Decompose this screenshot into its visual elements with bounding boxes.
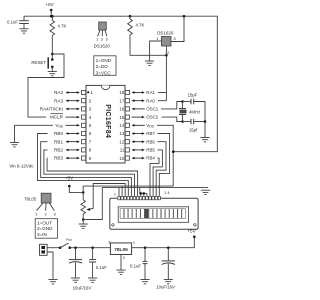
svg-text:4.7K: 4.7K xyxy=(58,24,67,29)
resistor R2 4.7K xyxy=(128,19,133,35)
wire to C3 xyxy=(183,121,191,123)
junction S1 right xyxy=(69,246,72,249)
wire +5V stub xyxy=(50,10,52,16)
wire RB4 to LCD xyxy=(150,158,159,196)
wire RB1 to LCD xyxy=(41,142,132,197)
LCD mounting holes xyxy=(112,224,114,226)
wire C3 to ground rail xyxy=(194,121,205,123)
wire C2 to ground rail xyxy=(194,102,205,138)
svg-text:OSC1: OSC1 xyxy=(146,107,159,112)
wire +5V arrow to pot node xyxy=(69,186,83,192)
junction reset contact bottom xyxy=(51,66,54,69)
svg-text:RA2: RA2 xyxy=(54,90,63,95)
svg-text:10uF/16V: 10uF/16V xyxy=(156,284,175,289)
wire U4 pin2 to ground xyxy=(120,255,122,271)
svg-text:0.1uF: 0.1uF xyxy=(130,264,141,269)
junction Cout1 xyxy=(144,246,147,249)
wire crystal stem top xyxy=(182,102,184,109)
legend box DS1620 pinout xyxy=(94,56,116,76)
wire rail to R2 xyxy=(129,16,131,19)
wire pot top stem xyxy=(82,192,84,200)
wire Cout1 to ground xyxy=(144,264,146,280)
svg-text:1 4: 1 4 xyxy=(164,190,170,195)
wire RA0 to DQ xyxy=(158,100,166,102)
wire RB0 to LCD xyxy=(38,134,129,197)
svg-text:VSS: VSS xyxy=(55,123,63,128)
capacitor Cin1 10uF/16V xyxy=(69,260,82,264)
ground U3 pin1 xyxy=(145,61,154,65)
op-chip U1 PIC16F84 body xyxy=(86,85,125,163)
junction +5V terminal xyxy=(50,9,53,12)
junction DQ node xyxy=(165,54,168,57)
svg-text:RB7: RB7 xyxy=(146,131,155,136)
junction Cin2 xyxy=(91,246,94,249)
wire +5V output rail xyxy=(132,237,195,248)
junction VDD/+5V rail xyxy=(172,150,175,153)
wire VDD to +5V feed xyxy=(157,125,173,186)
U1 left pin arrows xyxy=(66,91,80,159)
capacitor C3 15pF xyxy=(191,119,194,125)
wire C1 to ground xyxy=(23,24,25,29)
wire OSC2 xyxy=(162,117,183,121)
LCD module box xyxy=(110,198,198,229)
U1 pin boxes left xyxy=(82,90,86,160)
wire ground line LCD xyxy=(83,188,208,220)
wire LCD pin2 VDD xyxy=(121,186,123,196)
svg-text:+5V: +5V xyxy=(45,2,54,7)
wire RB2 to LCD xyxy=(44,150,135,197)
wire LCD pin1 VSS xyxy=(118,188,120,197)
svg-text:11: 11 xyxy=(120,148,125,153)
svg-text:10: 10 xyxy=(119,156,124,161)
LCD character cells xyxy=(120,209,185,219)
svg-text:14: 14 xyxy=(119,123,124,128)
junction MCLR node xyxy=(51,53,54,56)
wire U3 pin1 to ground xyxy=(150,41,162,61)
wire OSC1 xyxy=(161,102,183,109)
svg-text:RB4: RB4 xyxy=(146,156,155,161)
wire +5V LCD line xyxy=(83,186,173,192)
wire wiper to LCD pin3 xyxy=(93,184,125,209)
transistor-package DS1620 U2 illustration xyxy=(99,22,107,30)
svg-text:RA0: RA0 xyxy=(146,98,155,103)
svg-text:RB2: RB2 xyxy=(54,148,63,153)
svg-text:RESET: RESET xyxy=(31,60,46,65)
capacitor Cout2 10uF/16V xyxy=(162,261,175,265)
svg-text:OSC2: OSC2 xyxy=(146,115,159,120)
capacitor C2 15pF xyxy=(191,99,194,105)
svg-text:RB1: RB1 xyxy=(54,139,63,144)
svg-text:10uF/16V: 10uF/16V xyxy=(73,285,92,290)
svg-text:15: 15 xyxy=(119,115,124,120)
svg-text:2=DO: 2=DO xyxy=(96,64,109,69)
wire U3 DQ down to RA0 xyxy=(165,46,167,101)
junction D-tie pin8 xyxy=(139,192,142,195)
svg-text:18: 18 xyxy=(119,90,124,95)
wire Cin1 to ground xyxy=(75,262,77,278)
junction gnd rail/C3 xyxy=(204,120,207,123)
LCD display window xyxy=(118,207,188,223)
svg-text:2=GND: 2=GND xyxy=(37,226,53,231)
svg-text:1: 1 xyxy=(114,192,116,197)
wire R1 to reset switch xyxy=(51,35,53,59)
resistor VR1 contrast pot xyxy=(81,200,86,214)
svg-text:4.7K: 4.7K xyxy=(136,22,145,27)
junction Cin1 xyxy=(74,246,77,249)
svg-text:1=OUT: 1=OUT xyxy=(37,220,52,225)
junction rail/R2 xyxy=(129,15,132,18)
svg-text:RA4/T0CKI: RA4/T0CKI xyxy=(40,107,63,112)
wire to Cin1 xyxy=(75,248,77,260)
wire U2 lead 3 xyxy=(105,30,107,36)
wire pot to ground xyxy=(82,220,84,225)
wire to Cout1 xyxy=(144,248,146,262)
svg-text:DS1620: DS1620 xyxy=(94,44,111,49)
capacitor C1 0.1uF xyxy=(19,21,29,24)
wire rail to R1 xyxy=(51,16,53,20)
U1 pin numbers 18-10 xyxy=(119,90,124,161)
switch RESET pushbutton xyxy=(47,57,49,68)
ground pot xyxy=(79,224,88,228)
ground reset xyxy=(48,72,57,76)
wire U3 pin3 to +5V rail xyxy=(171,16,184,41)
svg-text:Vin 9-12Vdc: Vin 9-12Vdc xyxy=(9,163,34,168)
junction reset contact top xyxy=(51,58,54,61)
wire U2 lead 1 xyxy=(98,30,100,36)
svg-text:+5V: +5V xyxy=(65,176,74,181)
ground Cout1 xyxy=(140,280,149,284)
wire RB6 to LCD xyxy=(156,142,166,197)
wire Cin2 to ground xyxy=(92,262,94,278)
svg-text:MCLR: MCLR xyxy=(50,115,64,120)
wire RB3 to LCD xyxy=(47,158,138,196)
svg-text:3=IN: 3=IN xyxy=(37,232,47,237)
svg-text:15pf: 15pf xyxy=(189,128,198,133)
ground Cin1 xyxy=(71,278,80,282)
ground J1 xyxy=(48,280,57,284)
svg-text:DS1620: DS1620 xyxy=(157,30,174,35)
wire to Cout2 xyxy=(167,248,169,261)
wire LCD pin8 xyxy=(140,193,142,196)
wire LCD pin10 xyxy=(146,193,148,196)
wire to Cin2 xyxy=(92,248,94,260)
ground Cout2 xyxy=(164,280,173,284)
wire RA1 to DQ xyxy=(158,92,166,94)
ground Cin2 xyxy=(88,278,97,282)
wire reset to ground xyxy=(51,67,53,72)
svg-text:78L05: 78L05 xyxy=(114,247,128,253)
wire J1 to ground xyxy=(47,252,53,280)
wire switch to regulator xyxy=(70,247,111,249)
svg-text:1=GND: 1=GND xyxy=(96,58,112,63)
U1 left pin labels xyxy=(40,90,64,161)
svg-text:RB0: RB0 xyxy=(54,131,63,136)
svg-text:VDD: VDD xyxy=(146,123,154,128)
junction +5V LCD terminal xyxy=(68,185,71,188)
resistor R1 4.7K xyxy=(50,20,55,35)
junction crystal bottom xyxy=(181,120,184,123)
wire Cout2 to ground xyxy=(167,264,169,280)
junction pot bottom xyxy=(82,218,85,221)
svg-text:12: 12 xyxy=(119,139,124,144)
wire reg lead 1 xyxy=(37,203,43,211)
junction D-tie pin9 xyxy=(143,192,146,195)
capacitor Cin2 0.1uF xyxy=(89,260,96,262)
wire +5V rail top/right xyxy=(24,16,217,152)
wire reg lead 2 xyxy=(45,203,48,211)
ground crystal xyxy=(200,138,209,142)
svg-text:RB5: RB5 xyxy=(146,148,155,153)
U1 pin numbers 1-9 xyxy=(89,90,94,161)
transistor-package DS1620 U3 xyxy=(162,37,172,47)
ground U4 xyxy=(116,270,125,274)
transistor-package 78L05 illustration xyxy=(41,193,51,203)
svg-text:0.1uF: 0.1uF xyxy=(96,265,107,270)
wire crystal stem bottom xyxy=(182,115,184,122)
U1 right pin arrows xyxy=(132,91,145,159)
wire RB5 to LCD xyxy=(153,150,162,197)
junction Cout2 xyxy=(167,246,170,249)
svg-text:0.1uF: 0.1uF xyxy=(7,19,18,24)
LCD header pins xyxy=(118,196,161,199)
svg-text:16: 16 xyxy=(119,107,124,112)
ground Vss xyxy=(10,143,19,147)
wire rail to C1 xyxy=(23,16,25,20)
legend box 78L05 pinout xyxy=(35,219,57,239)
node U1 pin1 index dot xyxy=(87,91,89,93)
svg-text:3=VCC: 3=VCC xyxy=(96,70,112,75)
wire D-tie segment xyxy=(140,188,147,194)
wire U2 lead 2 xyxy=(101,30,103,36)
junction rail/+5V xyxy=(50,15,53,18)
connector J1 power input xyxy=(40,244,48,255)
wire MCLR loop xyxy=(28,54,64,117)
svg-text:PIC16F84: PIC16F84 xyxy=(104,104,111,138)
junction +5V out terminal xyxy=(193,236,196,239)
svg-text:RB6: RB6 xyxy=(146,139,155,144)
svg-text:+5V: +5V xyxy=(187,229,196,234)
ground C1 xyxy=(19,29,28,33)
junction S1 left xyxy=(59,246,62,249)
wire R2 to DQ node xyxy=(130,35,166,55)
capacitor Cout1 0.1uF xyxy=(143,261,148,263)
U1 right pin labels xyxy=(146,90,159,161)
junction pot top xyxy=(82,191,85,194)
junction rail/R1 xyxy=(51,15,54,18)
svg-text:RA1: RA1 xyxy=(146,90,155,95)
ground LCD right xyxy=(201,190,210,194)
U1 pin boxes right xyxy=(125,90,129,160)
wire to C2 xyxy=(183,101,191,103)
svg-text:4MHz: 4MHz xyxy=(189,109,200,114)
wire Vss to ground xyxy=(15,125,54,142)
wire pot bottom stem xyxy=(82,214,84,220)
svg-text:13: 13 xyxy=(119,131,124,136)
svg-text:15pF: 15pF xyxy=(188,92,198,97)
svg-text:78L05: 78L05 xyxy=(24,196,37,201)
wire RB7 to LCD xyxy=(158,134,170,197)
junction rail/U3 VCC xyxy=(183,15,186,18)
junction crystal top xyxy=(181,100,184,103)
wire J1 to switch xyxy=(47,247,60,249)
svg-text:17: 17 xyxy=(119,98,124,103)
MCLR overline xyxy=(51,113,64,115)
regulator U4 78L05 xyxy=(110,243,131,255)
pot wiper arrow xyxy=(89,208,93,211)
wire LCD pin9 xyxy=(143,193,145,196)
svg-text:Pwr: Pwr xyxy=(66,238,73,242)
svg-text:RA3: RA3 xyxy=(54,98,63,103)
wire reg lead 3 xyxy=(49,203,54,211)
svg-text:RB3: RB3 xyxy=(54,156,63,161)
